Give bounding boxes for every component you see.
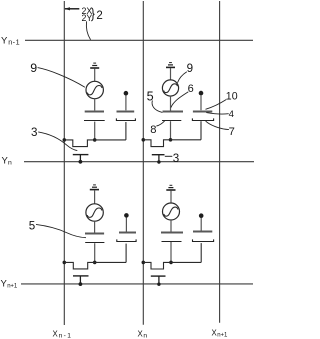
storage capacitor bottom plate with hooks (cell A) xyxy=(116,118,135,120)
row line Yn+1 xyxy=(21,283,253,285)
svg-text:6: 6 xyxy=(188,83,194,95)
ground symbol (cell C) xyxy=(90,185,99,190)
capacitor bottom plate (cell B) xyxy=(162,120,181,122)
junction dot node (cell B) xyxy=(169,138,173,142)
leader 6 to electrode (cell B) xyxy=(171,92,188,108)
gate junction dot on Yn+1 (cell D) xyxy=(157,283,160,286)
leader 9 to source circle (cell B) xyxy=(178,72,187,83)
leader dash 3 to gate (cell B) xyxy=(165,155,173,157)
column line Xn-1 xyxy=(63,1,65,325)
transistor gate bar (cell C) xyxy=(73,275,89,277)
AC signal source circle (cell C) xyxy=(86,204,103,221)
leader 7 to storage bottom plate (cell B) xyxy=(206,121,229,130)
junction dot on column Xn (cell D) xyxy=(142,261,146,265)
storage capacitor top plate (cell A) xyxy=(117,111,135,113)
wire capacitor to node (cell B) xyxy=(170,121,172,139)
wire capacitor to node (cell A) xyxy=(94,122,96,140)
leader 8 to bottom plate (cell B) xyxy=(156,121,164,126)
gate lead to row Yn+1 (cell C) xyxy=(79,276,81,284)
wire ground to source (cell B) xyxy=(170,68,172,80)
transistor Q channel wire (cell C) xyxy=(64,262,126,269)
wire capacitor to node (cell D) xyxy=(170,242,172,262)
transistor Q channel wire (cell D) xyxy=(143,262,201,269)
row line Yn xyxy=(24,161,254,163)
capacitor top plate (cell C) xyxy=(85,233,104,235)
AC signal source circle (cell D) xyxy=(163,203,180,220)
storage capacitor top plate (cell B) xyxy=(193,111,212,113)
transistor gate bar (cell A) xyxy=(73,154,89,156)
wire terminal to capacitor (cell B) xyxy=(200,96,202,111)
sine wave inside source (cell A) xyxy=(87,86,102,95)
wire node to storage capacitor (cell A) xyxy=(125,122,127,140)
svg-text:n: n xyxy=(8,160,12,167)
svg-text:5: 5 xyxy=(29,219,35,232)
sine wave inside source (cell B) xyxy=(164,84,178,93)
capacitor bottom plate (cell D) xyxy=(162,241,182,243)
svg-text:n+1: n+1 xyxy=(217,333,228,339)
leader from 2Y to row Yn-1 xyxy=(86,21,90,40)
wire source to capacitor (cell A) xyxy=(94,99,96,111)
wire node to storage capacitor (cell C) xyxy=(125,244,127,263)
terminal dot (cell A) xyxy=(124,91,129,96)
transistor Q channel wire (cell A) xyxy=(64,140,126,147)
transistor gate bar (cell D) xyxy=(151,275,166,277)
gate lead to row Yn+1 (cell D) xyxy=(158,277,160,285)
storage capacitor top plate (cell D) xyxy=(193,231,212,233)
junction dot node (cell A) xyxy=(93,138,97,142)
leader 4 to storage top plate (cell B) xyxy=(206,113,228,114)
AC signal source circle (cell A) xyxy=(86,81,103,98)
column line Xn+1 xyxy=(219,1,221,323)
svg-text:8: 8 xyxy=(150,124,156,136)
ground symbol (cell A) xyxy=(90,63,99,68)
junction dot node (cell D) xyxy=(169,261,173,265)
svg-text:Y: Y xyxy=(1,35,8,46)
svg-text:3: 3 xyxy=(173,152,179,165)
svg-text:10: 10 xyxy=(226,90,238,102)
junction dot on column Xn (cell B) xyxy=(142,138,146,142)
svg-text:9: 9 xyxy=(30,61,37,75)
pointer arrow to column Xn-1 for label 2X xyxy=(65,8,79,10)
terminal dot (cell D) xyxy=(199,213,204,218)
svg-text:n: n xyxy=(143,332,147,339)
leader 3 to gate (cell A) xyxy=(38,132,77,151)
wire source to capacitor (cell C) xyxy=(94,221,96,233)
capacitor C1 top plate (cell A) xyxy=(85,111,104,113)
row line Yn-1 xyxy=(25,39,253,41)
wire ground to source (cell D) xyxy=(170,191,172,203)
ground symbol (cell D) xyxy=(166,185,175,190)
svg-text:2: 2 xyxy=(96,10,102,22)
svg-text:n-1: n-1 xyxy=(8,38,20,47)
storage capacitor top plate (cell C) xyxy=(119,232,136,234)
leader 9 to source circle (cell A) xyxy=(38,68,85,88)
leader 10 to terminal (cell B) xyxy=(206,100,227,110)
gate junction dot on Yn (cell B) xyxy=(157,160,160,163)
leader 5 to capacitor (cell C) xyxy=(36,224,86,237)
sine wave inside source (cell C) xyxy=(87,208,102,217)
AC signal source circle (cell B) xyxy=(162,80,178,96)
terminal dot (cell C) xyxy=(124,213,129,218)
capacitor top plate (cell B) xyxy=(163,111,184,113)
wire ground to source (cell C) xyxy=(94,190,96,204)
storage capacitor bottom plate with hooks (cell B) xyxy=(192,118,213,120)
svg-text:3: 3 xyxy=(31,126,37,139)
wire source to capacitor (cell B) xyxy=(170,96,172,111)
svg-text:X: X xyxy=(53,329,59,338)
gate lead to row Yn (cell A) xyxy=(79,155,81,162)
gate lead to row Yn (cell B) xyxy=(158,155,160,162)
storage capacitor bottom plate with hooks (cell D) xyxy=(193,239,214,241)
storage capacitor bottom plate with hooks (cell C) xyxy=(117,239,136,241)
wire terminal to capacitor (cell A) xyxy=(125,96,127,111)
gate junction dot on Yn (cell A) xyxy=(79,160,83,164)
gate junction dot on Yn+1 (cell C) xyxy=(79,282,83,286)
capacitor C1 bottom plate (cell A) xyxy=(84,120,105,122)
leader 5 to top plate (cell B) xyxy=(152,101,162,113)
junction dot on column Xn-1 (cell A) xyxy=(63,138,67,142)
svg-text:n+1: n+1 xyxy=(7,284,18,290)
wire terminal to capacitor (cell D) xyxy=(200,218,202,231)
wire terminal to capacitor (cell C) xyxy=(125,218,127,232)
svg-text:9: 9 xyxy=(187,62,193,75)
capacitor top plate (cell D) xyxy=(161,232,183,234)
svg-text:2Y: 2Y xyxy=(82,13,93,23)
terminal dot (cell B) xyxy=(199,91,204,96)
junction dot on column Xn-1 (cell C) xyxy=(63,261,67,265)
wire node to storage capacitor (cell B) xyxy=(200,121,202,140)
svg-text:n-1: n-1 xyxy=(59,332,73,339)
capacitor bottom plate (cell C) xyxy=(85,242,104,244)
svg-text:7: 7 xyxy=(229,126,235,138)
wire ground to source (cell A) xyxy=(94,69,96,82)
junction dot node (cell C) xyxy=(93,261,97,265)
brace for 2 xyxy=(91,8,94,21)
wire capacitor to node (cell C) xyxy=(94,243,96,262)
sine wave inside source (cell D) xyxy=(164,207,178,216)
wire source to capacitor (cell D) xyxy=(170,220,172,232)
svg-text:4: 4 xyxy=(229,109,235,120)
ground symbol (cell B) xyxy=(166,63,175,68)
wire node to storage capacitor (cell D) xyxy=(200,243,202,262)
column line Xn xyxy=(142,1,144,325)
transistor Q channel wire (cell B) xyxy=(143,140,201,147)
transistor gate bar (cell B) xyxy=(152,154,165,156)
